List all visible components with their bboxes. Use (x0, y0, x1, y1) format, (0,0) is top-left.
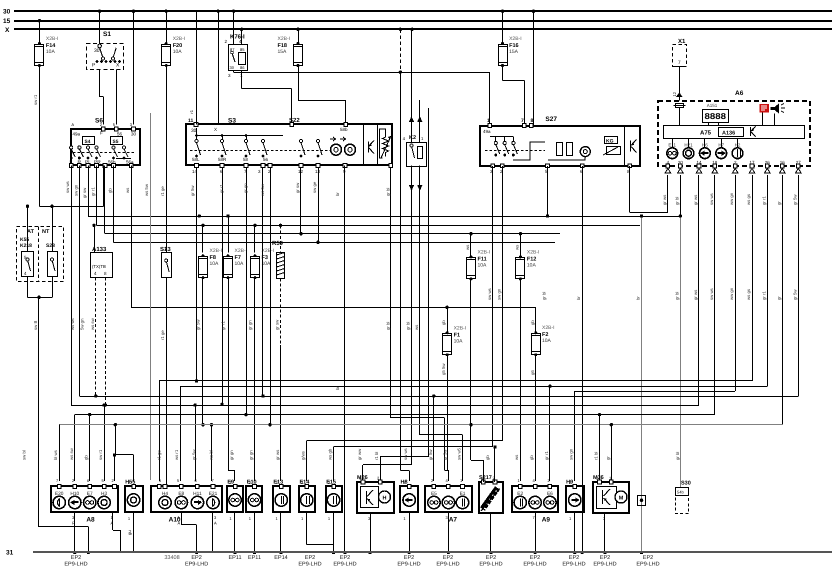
svg-text:br: br (335, 386, 340, 390)
svg-text:gr ww: gr ww (357, 448, 362, 460)
wire H55 riser (113, 425, 134, 481)
svg-text:NT: NT (42, 229, 50, 235)
svg-text:56: 56 (263, 157, 269, 162)
svg-text:EP9-LHD: EP9-LHD (185, 562, 208, 568)
svg-text:X2B-I: X2B-I (454, 325, 467, 331)
wire F11 down (470, 278, 472, 460)
motor unit M36 (593, 475, 629, 521)
wire A133 dashed pins (96, 277, 108, 406)
svg-text:33408: 33408 (164, 555, 179, 561)
svg-text:gr r1: gr r1 (761, 196, 766, 205)
wire A6 pin18 to A8 H10 (75, 175, 715, 481)
wire M36 pin2 riser (598, 413, 601, 482)
svg-text:ws gs: ws gs (746, 194, 751, 205)
svg-text:EP9-LHD: EP9-LHD (64, 562, 87, 568)
wire A7 down (447, 513, 450, 554)
svg-text:ws 5w: ws 5w (260, 183, 265, 196)
svg-text:16: 16 (780, 160, 786, 165)
svg-text:27: 27 (796, 160, 802, 165)
wire F2 feed (535, 307, 537, 333)
svg-text:58: 58 (243, 157, 249, 162)
bus 15 (3, 18, 832, 25)
wire K2 pin3 down to M26 (363, 166, 412, 483)
svg-text:X2B-I: X2B-I (542, 325, 555, 331)
svg-text:gr bl: gr bl (406, 322, 411, 330)
wire A8 right pin riser (114, 455, 116, 481)
wire bus30 to S3 X (218, 11, 220, 124)
wire F16 to S27 pin7 (503, 65, 525, 126)
svg-text:EP11: EP11 (248, 555, 261, 561)
svg-text:gr 5w: gr 5w (196, 319, 201, 330)
svg-text:X: X (214, 127, 217, 132)
svg-text:KG: KG (606, 139, 614, 145)
svg-text:g6: g6 (530, 370, 535, 375)
svg-text:gr r1: gr r1 (221, 321, 226, 330)
motor unit M26 (357, 475, 394, 521)
wire S3 pin9 br down to ground (343, 166, 346, 555)
svg-text:gr gn: gr gn (229, 450, 234, 460)
wire K76 pin3 down (233, 71, 235, 72)
svg-text:br: br (636, 296, 641, 300)
wire F18 to S3 58b (298, 65, 346, 125)
rheostat S217 (479, 475, 503, 513)
svg-text:X2B-I: X2B-I (509, 36, 522, 42)
wire A6 pin2 to H9 (575, 175, 736, 481)
svg-text:ws r1: ws r1 (174, 449, 179, 460)
svg-text:18: 18 (712, 160, 718, 165)
wire E15 down (332, 513, 335, 554)
wire dashed X-bus stub (400, 29, 402, 72)
wire band y307 (131, 166, 536, 309)
wire A6 pin14 long to S6 L (71, 166, 699, 482)
wire br to connector and ground (640, 214, 643, 554)
wire E14 down (307, 513, 334, 545)
svg-text:sw w5: sw w5 (457, 447, 462, 460)
connector X1 (673, 38, 687, 67)
svg-text:X2B-I: X2B-I (527, 249, 540, 255)
svg-text:10A: 10A (454, 338, 464, 344)
svg-text:sw ws: sw ws (65, 181, 70, 193)
wire F20 feed (166, 11, 168, 44)
svg-text:ws: ws (414, 325, 419, 330)
ignition switch S1 (87, 31, 124, 70)
svg-text:58L: 58L (192, 157, 200, 162)
wire H55 down (127, 513, 134, 553)
svg-text:EP2: EP2 (643, 555, 653, 561)
svg-text:X2B-I: X2B-I (478, 249, 491, 255)
svg-text:gr ws: gr ws (693, 195, 698, 205)
svg-text:gr ws: gr ws (275, 450, 280, 460)
svg-text:gr 5w: gr 5w (192, 449, 197, 460)
svg-text:A6: A6 (735, 90, 744, 97)
svg-text:gb: gb (529, 455, 534, 460)
svg-text:gr bl: gr bl (542, 292, 547, 300)
svg-text:1: 1 (487, 118, 490, 124)
svg-text:EP2: EP2 (600, 555, 610, 561)
svg-text:A: A (178, 521, 181, 526)
svg-text:gr bl: gr bl (386, 188, 391, 196)
svg-text:15A: 15A (278, 49, 288, 55)
svg-text:EP2: EP2 (404, 555, 414, 561)
svg-text:EP9-LHD: EP9-LHD (298, 562, 321, 568)
wire long x401 to H8 (400, 72, 409, 481)
wire M26 down (368, 513, 371, 554)
svg-text:X2B-I: X2B-I (262, 248, 275, 254)
relay K76-I (224, 34, 247, 79)
svg-text:X2B-I: X2B-I (173, 36, 186, 42)
svg-text:7: 7 (521, 118, 524, 124)
wire S1-X down (116, 69, 118, 124)
svg-text:58R: 58R (218, 157, 227, 162)
svg-text:M: M (619, 496, 624, 502)
wire K55/S28 merge down (28, 276, 91, 554)
svg-text:r1 ge: r1 ge (160, 330, 165, 340)
flasher relay K2 (403, 116, 427, 191)
svg-text:sw ge: sw ge (312, 181, 317, 193)
svg-text:ws: ws (465, 245, 470, 250)
svg-text:15: 15 (3, 18, 11, 25)
svg-text:gr bl: gr bl (386, 322, 391, 330)
wire S27 pin6 br down (580, 166, 583, 554)
switch unit S6 (69, 118, 140, 168)
svg-text:X2B-I: X2B-I (210, 248, 223, 254)
lamp unit A8 (51, 485, 118, 512)
wire band y206 (26, 166, 104, 252)
wire S1-P down (100, 69, 104, 124)
svg-text:49a: 49a (483, 129, 491, 134)
svg-text:R59: R59 (272, 240, 284, 247)
svg-text:ws: ws (514, 245, 519, 250)
svg-text:gr 5w: gr 5w (792, 194, 797, 205)
svg-text:gr gn: gr gn (243, 183, 248, 193)
switch S28 (48, 252, 58, 277)
svg-text:ws sw: ws sw (69, 447, 74, 460)
svg-text:sw ws: sw ws (709, 193, 714, 205)
svg-text:X2B-I: X2B-I (46, 36, 59, 42)
svg-text:H6: H6 (702, 143, 708, 148)
lamp unit A7 (425, 485, 472, 512)
svg-text:EP9-LHD: EP9-LHD (479, 562, 502, 568)
svg-text:30: 30 (191, 128, 197, 134)
wire band y234 (105, 166, 561, 254)
svg-text:ws ws: ws ws (70, 318, 75, 330)
wire F1 down to A7 (445, 354, 449, 481)
svg-text:12: 12 (672, 91, 677, 96)
svg-text:gb: gb (530, 320, 535, 325)
svg-text:gu: gu (127, 530, 132, 535)
wire F1 feed (447, 307, 449, 333)
svg-text:14: 14 (696, 160, 702, 165)
svg-text:EP2: EP2 (486, 555, 496, 561)
svg-text:gr 5w: gr 5w (792, 289, 797, 300)
svg-text:15A: 15A (509, 49, 519, 55)
wire F14 down (39, 65, 41, 206)
A6 telltale lamps (667, 138, 743, 159)
svg-text:gr gn: gr gn (248, 320, 253, 330)
wire F11 to S217 (471, 445, 497, 482)
wire bus30 to S6 (133, 11, 135, 124)
svg-text:gr bl: gr bl (674, 292, 679, 300)
lamp E10 (246, 480, 262, 522)
svg-text:A8: A8 (86, 517, 95, 524)
lamp H8 (400, 480, 418, 522)
switch unit S27 (480, 116, 640, 168)
svg-text:sw B: sw B (33, 321, 38, 330)
fuse F8 (199, 248, 223, 279)
wire E9 down (233, 513, 236, 554)
wire A6 pin16 gray to A8 E20 (59, 175, 782, 482)
junction dots on buses (38, 10, 536, 31)
svg-text:sw gn: sw gn (496, 288, 501, 300)
svg-text:gr 5w: gr 5w (190, 185, 195, 196)
svg-text:br: br (335, 192, 340, 196)
svg-text:S28: S28 (46, 243, 55, 249)
svg-text:49a: 49a (73, 132, 81, 137)
svg-text:85: 85 (240, 47, 245, 52)
svg-text:gr: gr (776, 201, 781, 205)
lamp E13 (273, 480, 290, 522)
svg-text:gr 5w: gr 5w (428, 449, 433, 460)
lamp H9 (566, 480, 584, 522)
svg-text:AT: AT (27, 229, 35, 235)
wire F12 down to A9 (520, 278, 522, 481)
svg-text:H: H (383, 496, 387, 502)
wire A6 pin26 to A10 (180, 175, 767, 481)
wire M36 down (603, 513, 606, 554)
svg-text:sw ws: sw ws (403, 448, 408, 460)
svg-text:ws: ws (514, 455, 519, 460)
svg-text:gr ws: gr ws (662, 195, 667, 205)
switch unit S3 (186, 117, 393, 167)
wire S27 pin5 to junction (546, 166, 549, 218)
instrument cluster A6 (658, 90, 810, 166)
lamp E9 (227, 480, 243, 522)
svg-text:sw bl: sw bl (22, 450, 27, 460)
svg-text:gr sw: gr sw (82, 187, 87, 198)
wire H9 down (573, 513, 576, 554)
wire long x428 to M26 (380, 108, 428, 482)
wire band y216 (88, 166, 680, 253)
wire K76 pin4 up (241, 29, 243, 44)
svg-text:gr bl: gr bl (674, 197, 679, 205)
fuse F11 (467, 249, 491, 280)
connector S30 (676, 481, 691, 514)
svg-text:31: 31 (6, 550, 14, 557)
svg-text:sw r1: sw r1 (33, 94, 38, 105)
wire S3 pins down (195, 168, 272, 427)
fuse F3 (251, 248, 275, 279)
svg-text:ws sw: ws sw (90, 317, 95, 330)
svg-text:30: 30 (230, 65, 235, 70)
svg-text:sw ws: sw ws (487, 288, 492, 300)
svg-text:gr sw: gr sw (295, 182, 300, 193)
svg-text:54b: 54b (677, 490, 684, 495)
svg-text:17: 17 (749, 160, 755, 165)
svg-text:EP2: EP2 (71, 555, 81, 561)
svg-text:EP9-LHD: EP9-LHD (523, 562, 546, 568)
wire F8 down to gray junction (201, 278, 213, 482)
wire A6 pin27 long to S6 R (79, 166, 798, 482)
wire S27 pin3 to E15 (334, 166, 493, 481)
svg-text:A: A (71, 122, 74, 127)
svg-text:K218: K218 (20, 243, 32, 249)
svg-text:br: br (576, 296, 581, 300)
wire E10 down (253, 513, 256, 554)
svg-text:A133: A133 (92, 246, 107, 253)
wire K2 pin1 up (419, 100, 421, 142)
svg-text:gr r1: gr r1 (219, 184, 224, 193)
svg-text:EP9-LHD: EP9-LHD (436, 562, 459, 568)
svg-text:58b: 58b (340, 127, 348, 132)
svg-text:13: 13 (315, 169, 321, 174)
wire F11 feed (470, 253, 472, 257)
svg-text:gr bl: gr bl (675, 452, 680, 460)
wire K2 pin5 to A7 E1 (420, 166, 463, 482)
lamp unit A9 (512, 485, 558, 512)
svg-text:EP2: EP2 (530, 555, 540, 561)
svg-text:X1: X1 (678, 38, 686, 45)
svg-text:r1 bl: r1 bl (374, 452, 379, 460)
svg-text:gb: gb (441, 320, 446, 325)
svg-text:EP2: EP2 (305, 555, 315, 561)
lamp E14 (299, 480, 315, 522)
wire horizontal y72 K76 to S27 pin1 (234, 71, 490, 126)
svg-text:S30: S30 (681, 481, 691, 487)
svg-text:gb: gb (108, 188, 113, 193)
svg-text:ws bl: ws bl (209, 450, 214, 460)
ground labels (64, 555, 659, 568)
svg-text:S1: S1 (103, 31, 111, 38)
svg-text:EP9-LHD: EP9-LHD (636, 562, 659, 568)
svg-text:ww gn: ww gn (729, 192, 734, 205)
svg-text:10A: 10A (173, 49, 183, 55)
svg-text:X2B-I: X2B-I (278, 36, 291, 42)
wire colour labels (22, 94, 798, 460)
wire S13 down (166, 277, 168, 486)
wire S27 pin2 to E14 (307, 166, 503, 481)
fuse F2 (531, 325, 554, 356)
svg-text:EP9-LHD: EP9-LHD (593, 562, 616, 568)
svg-text:30: 30 (131, 132, 137, 137)
fuse F7 (224, 248, 248, 279)
wire A10 to ground bus (181, 513, 212, 554)
resistor R59 (272, 240, 285, 279)
switch S13 (160, 246, 172, 278)
svg-text:ws: ws (125, 188, 130, 193)
wire R59 down to E13 (280, 278, 282, 481)
svg-text:X: X (5, 27, 10, 34)
svg-text:ws 5w: ws 5w (144, 183, 149, 196)
svg-text:sw gn: sw gn (569, 448, 574, 460)
svg-text:26: 26 (765, 160, 771, 165)
fuse F16 (498, 36, 522, 67)
svg-text:g5 5w: g5 5w (441, 363, 446, 375)
svg-text:56: 56 (117, 132, 123, 137)
bus 30 (3, 9, 832, 16)
svg-text:gr gn: gr gn (249, 450, 254, 460)
wire S3 flasher pin down (391, 168, 445, 471)
wire bus30 to S27 pin8 (533, 11, 535, 125)
wire X1 down to A6 (672, 67, 683, 101)
wire K76 pin1 down to S22 riser (242, 71, 292, 125)
svg-text:sw gn: sw gn (74, 184, 79, 196)
svg-text:EP14: EP14 (274, 555, 287, 561)
lamp E15 (326, 480, 342, 522)
wire S217 down (489, 513, 492, 554)
svg-text:gr r1: gr r1 (544, 451, 549, 460)
svg-text:5w gn: 5w gn (80, 318, 85, 330)
wire K2 pin4 up to X bus (411, 29, 413, 142)
svg-text:A9: A9 (542, 517, 551, 524)
wire R59 dashed top (280, 225, 282, 252)
svg-text:EP2: EP2 (191, 555, 201, 561)
fuse F1 (443, 325, 467, 356)
svg-text:S5: S5 (113, 139, 119, 145)
wire A9 down (533, 513, 536, 554)
svg-text:r1 bl: r1 bl (594, 452, 599, 460)
svg-text:ws gs: ws gs (746, 289, 751, 300)
bus X (5, 27, 832, 34)
svg-text:10A: 10A (210, 261, 220, 267)
A6 bottom pins (665, 160, 801, 173)
connector on wire (638, 496, 646, 506)
svg-text:A: A (214, 521, 217, 526)
svg-text:10A: 10A (542, 338, 552, 344)
wire E13 down (279, 513, 282, 554)
S3 bottom pin numbers (192, 169, 346, 174)
fuse F14 (35, 36, 59, 67)
svg-text:10A: 10A (46, 49, 56, 55)
gearbox switches AT/NT box (17, 227, 64, 282)
svg-text:S4: S4 (85, 139, 91, 145)
svg-text:gr r1: gr r1 (761, 291, 766, 300)
svg-text:30: 30 (94, 48, 100, 54)
svg-text:gb: gb (84, 455, 89, 460)
svg-text:11: 11 (188, 118, 194, 124)
fuse F12 (516, 249, 540, 280)
svg-text:EP11: EP11 (228, 555, 241, 561)
svg-text:EP2: EP2 (569, 555, 579, 561)
control unit A133 (91, 246, 113, 278)
svg-text:(TX(TB: (TX(TB (92, 264, 106, 269)
wire F3 down to E10 (254, 278, 257, 482)
wire F2 down to A9 (535, 354, 537, 481)
wire band y242 (114, 166, 556, 245)
wire A6 pin17 to A10 (159, 175, 752, 481)
svg-text:30: 30 (3, 9, 11, 16)
svg-text:10A: 10A (235, 261, 245, 267)
svg-text:X2B-I: X2B-I (235, 248, 248, 254)
svg-text:gr: gr (605, 456, 610, 460)
svg-text:gb: gb (485, 455, 490, 460)
svg-text:ww gn: ww gn (729, 287, 734, 300)
svg-text:sw ws: sw ws (709, 288, 714, 300)
lamp unit A10 (151, 485, 222, 512)
svg-text:g/ws: g/ws (301, 451, 306, 460)
bus 31 (6, 550, 832, 557)
A6 internal fuse (674, 104, 686, 126)
svg-text:sw r1: sw r1 (98, 449, 103, 460)
svg-text:A75: A75 (700, 130, 712, 137)
wire A6 pin20 down to S30 (679, 175, 682, 487)
switch K55/K218 (22, 252, 34, 277)
wire band y225 (92, 166, 640, 253)
svg-text:86: 86 (240, 65, 245, 70)
S6 top pin numbers (71, 122, 132, 127)
wire F16 feed (502, 11, 504, 44)
svg-text:bl ws: bl ws (53, 450, 58, 460)
display A151 (703, 103, 729, 125)
